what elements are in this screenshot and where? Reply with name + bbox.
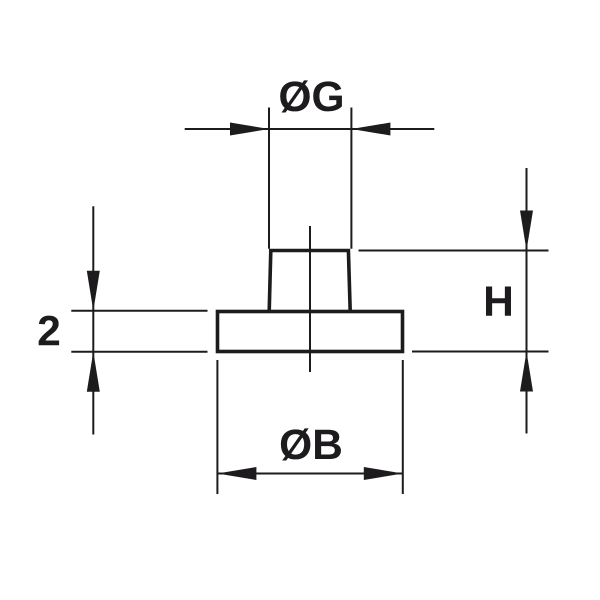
dimension 2: upper arrowhead [87,271,100,311]
part outline: flange (base plate) [218,312,403,352]
dimension ØB: right arrowhead [364,467,403,480]
dimension H: dimension line [526,168,528,434]
dimension H: upper extension line [359,250,549,252]
dimension ØG: dimension line [185,128,435,130]
dimension ØG: left arrowhead [230,123,269,136]
dimension ØG: left extension line [268,108,270,249]
dimension 2: lower arrowhead [87,352,100,392]
label 2 [39,316,59,346]
dimension ØG: right arrowhead [351,123,390,136]
dimension H: lower extension line [412,351,549,353]
centerline [309,226,311,372]
dimension H: upper arrowhead [520,211,533,251]
dimension 2: upper extension line [71,310,207,312]
label ØG [280,80,342,112]
label ØB [281,428,341,460]
dimension 2: dimension line [92,206,94,434]
part outline: tapered stem [269,251,350,312]
dimension ØB: left arrowhead [217,467,256,480]
label H [486,287,511,316]
dimension 2: lower extension line [71,351,207,353]
dimension ØB: dimension line [217,473,402,475]
dimension ØB: right extension line [402,360,404,494]
dimension ØG: right extension line [350,108,352,249]
dimension ØB: left extension line [216,360,218,494]
dimension H: lower arrowhead [520,352,533,392]
